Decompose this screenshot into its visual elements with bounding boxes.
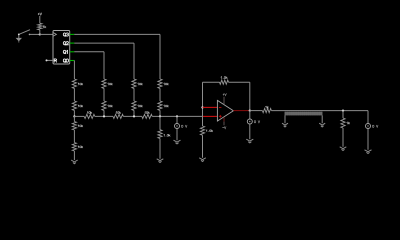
ground (probe P3) bbox=[365, 150, 372, 152]
resistor R17 1.0k (feedback) bbox=[220, 77, 229, 85]
resistor R5 10k (column 2 lower) bbox=[102, 101, 113, 110]
resistor R19 1k (load) bbox=[341, 118, 350, 128]
node bus junction col1 bbox=[73, 115, 75, 117]
wire (TL left ground stub) bbox=[284, 115, 286, 123]
wire (bus segment 3) bbox=[123, 115, 141, 117]
wire (+V to pull-up resistor) bbox=[39, 16, 41, 23]
wire (bus segment 1) bbox=[74, 115, 84, 117]
wire (R18 to transmission line and load) bbox=[271, 110, 368, 112]
probe P2 voltmeter 0V bbox=[247, 119, 252, 124]
wire (bus segment 2) bbox=[95, 115, 113, 117]
wire (feedback top right) bbox=[229, 82, 250, 110]
pin Q1 stub bbox=[70, 51, 75, 53]
wire (R19 to ground) bbox=[342, 128, 344, 147]
node bus junction probe tap bbox=[176, 115, 178, 117]
pin V- supply stub bbox=[223, 117, 225, 121]
wire (TL right ground stub) bbox=[321, 115, 323, 123]
wire (feedback top left) bbox=[203, 81, 220, 83]
node CLK junction bbox=[39, 33, 41, 35]
resistor R13 1.0k (termination upper) bbox=[72, 122, 83, 131]
resistor R8 10k (column 4 upper) bbox=[158, 79, 169, 88]
ground (switch ground) bbox=[16, 34, 22, 42]
wire (feedback node vertical) bbox=[202, 82, 204, 126]
power +V supply label bbox=[38, 13, 40, 15]
wire (column 3 to bus) bbox=[133, 110, 135, 116]
resistor R12 10k (bus) bbox=[142, 112, 152, 119]
wire (switch to clock node) bbox=[30, 33, 40, 35]
ground (load) bbox=[340, 147, 347, 149]
ground (termination) bbox=[71, 160, 78, 162]
resistor R1 pull-up 1k bbox=[38, 23, 46, 30]
wire (column 1 to bus) bbox=[73, 110, 75, 116]
node bus junction col2 bbox=[103, 115, 105, 117]
wire (output junction to probe P2) bbox=[249, 111, 251, 119]
wire (Q1 to column 2) bbox=[74, 52, 104, 79]
wire (clock node to chip clk pin) bbox=[40, 33, 53, 35]
node bus junction col3 bbox=[133, 115, 135, 117]
wire (line end down to probe P3) bbox=[367, 111, 369, 124]
wire (column 2 middle) bbox=[103, 88, 105, 101]
wire (R16 to ground) bbox=[202, 135, 204, 158]
wire (R15 to ground) bbox=[159, 139, 161, 159]
resistor R15 1.0k (col4 to ground) bbox=[158, 130, 170, 139]
node inverting input junction bbox=[201, 106, 203, 108]
wire (probe P1 to ground) bbox=[176, 129, 178, 141]
wire (probe P2 to ground) bbox=[249, 124, 251, 139]
resistor R9 10k (column 4 lower) bbox=[158, 101, 169, 110]
wire (Q3 to column 4) bbox=[74, 34, 160, 79]
wire (op-amp output, dark red) bbox=[233, 110, 249, 112]
wire (Q2 to column 3) bbox=[74, 43, 134, 79]
resistor R4 10k (column 2 upper) bbox=[102, 79, 113, 88]
ground (probe P2) bbox=[246, 139, 253, 141]
wire (output to series resistor) bbox=[250, 110, 263, 112]
ground (col4 branch) bbox=[157, 159, 164, 161]
node bus junction col4 bbox=[159, 115, 161, 117]
pin Q2 stub bbox=[70, 42, 75, 44]
resistor R18 1k (series output) bbox=[262, 106, 271, 113]
node output junction bbox=[249, 109, 251, 111]
wire (column 1 middle) bbox=[73, 88, 75, 101]
wire (pull-up to clock node) bbox=[39, 30, 41, 35]
wire (termination top) bbox=[73, 116, 75, 121]
resistor R6 10k (column 3 upper) bbox=[132, 79, 143, 88]
wire (Q0 to column 1) bbox=[73, 61, 75, 80]
wire (probe P3 to ground) bbox=[367, 129, 369, 150]
transmission line TL1 bbox=[285, 112, 323, 116]
resistor R2 10k (column 1 upper) bbox=[72, 79, 83, 88]
wire (load branch top) bbox=[342, 111, 344, 118]
wire (bus segment 4) bbox=[152, 115, 203, 117]
wire (column 3 middle) bbox=[133, 88, 135, 101]
wire (col4 below bus) bbox=[159, 116, 161, 129]
op-amp U2 bbox=[217, 93, 233, 128]
wire (column 2 to bus) bbox=[103, 110, 105, 116]
ground (probe P1) bbox=[174, 140, 181, 142]
pin Q0 stub bbox=[70, 60, 75, 62]
resistor R3 10k (column 1 lower) bbox=[72, 101, 83, 110]
op-amp-like counter chip U1 (4-bit counter) bbox=[53, 31, 70, 65]
wire (inverting input, red) bbox=[203, 106, 218, 108]
wire (column 4 to bus) bbox=[159, 110, 161, 116]
pin Q3 stub bbox=[70, 33, 75, 35]
ground (TL right) bbox=[319, 123, 325, 125]
wire (reset R stub, floating) bbox=[46, 59, 54, 61]
wire (column 4 middle) bbox=[159, 88, 161, 101]
resistor R11 10k (bus) bbox=[113, 112, 123, 119]
resistor R16 1.0k (gain to ground) bbox=[200, 126, 212, 135]
resistor R10 10k (bus) bbox=[84, 112, 95, 119]
wire (termination middle) bbox=[73, 130, 75, 143]
wire (non-inverting input from bus, red) bbox=[203, 115, 217, 117]
probe P1 voltmeter 0V bbox=[175, 124, 180, 129]
wire (termination to ground) bbox=[73, 151, 75, 160]
pin V+ supply stub bbox=[223, 97, 225, 105]
resistor R14 1.0k (termination lower) bbox=[72, 143, 83, 152]
switch SW1 (clock pushbutton, open lever) bbox=[18, 30, 30, 36]
wire (bus tap to probe P1) bbox=[176, 116, 178, 123]
probe P3 voltmeter 0V bbox=[366, 124, 371, 129]
ground (gain resistor) bbox=[199, 158, 206, 160]
node load junction bbox=[342, 109, 344, 111]
ground (TL left) bbox=[282, 123, 288, 125]
resistor R7 10k (column 3 lower) bbox=[132, 101, 143, 110]
